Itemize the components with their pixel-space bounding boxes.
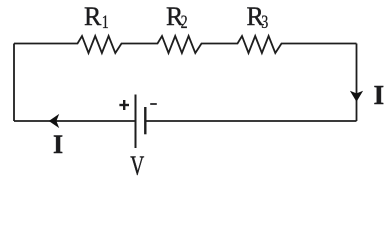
svg-text:3: 3 <box>261 12 268 33</box>
svg-text:R: R <box>84 2 102 31</box>
svg-text:I: I <box>374 79 385 110</box>
svg-text:1: 1 <box>102 12 109 33</box>
svg-text:I: I <box>53 130 63 159</box>
svg-text:2: 2 <box>181 12 188 33</box>
svg-text:V: V <box>130 150 144 180</box>
